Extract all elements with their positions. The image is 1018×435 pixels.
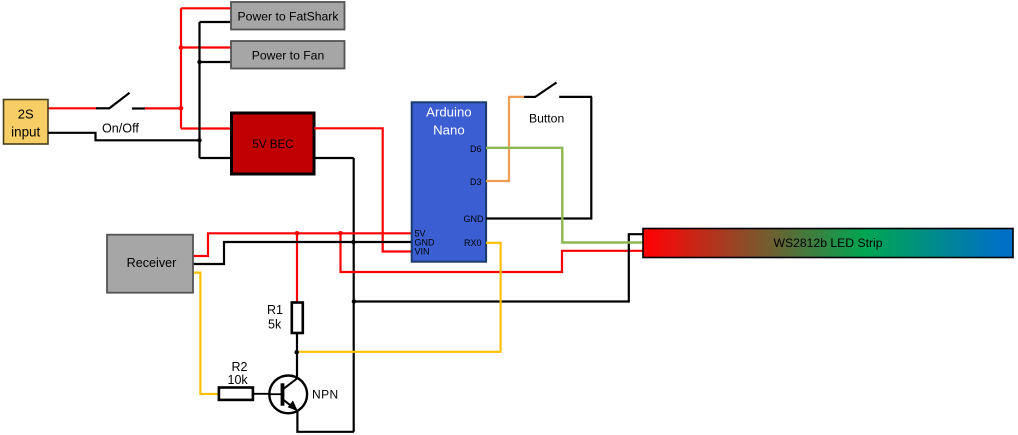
wire red: switch to riser junction bbox=[145, 107, 181, 109]
junction: black node R1/RX0/base divider bbox=[295, 350, 299, 354]
svg-text:Power to FatShark: Power to FatShark bbox=[238, 10, 340, 24]
svg-text:D3: D3 bbox=[470, 177, 482, 187]
wire black: BEC ground out to main ground trunk bbox=[314, 157, 354, 159]
junction: red node 5V rail to LED strip bbox=[338, 231, 343, 236]
resistor R1 body bbox=[292, 303, 303, 334]
wire red: 5V rail to WS2812b LED strip +5V bbox=[341, 233, 644, 272]
svg-text:Receiver: Receiver bbox=[127, 256, 177, 270]
svg-text:RX0: RX0 bbox=[464, 238, 482, 248]
wire black: receiver ground to Arduino GND bbox=[193, 242, 412, 264]
wire black: R1 bottom to transistor collector bbox=[296, 333, 298, 379]
wire black: main ground trunk vertical x=353.7 bbox=[353, 158, 355, 432]
transistor Q1: NPN bbox=[269, 376, 307, 414]
junction: black node ground trunk to LED strip bbox=[352, 299, 356, 303]
svg-text:Arduino: Arduino bbox=[426, 105, 471, 120]
wire yellow: receiver signal to R2 bbox=[193, 273, 220, 394]
wire red: vertical riser x=181 bbox=[180, 8, 182, 128]
wire red: riser to 5V BEC input bbox=[181, 127, 231, 129]
wire red: 2S input to on/off switch bbox=[48, 107, 97, 109]
wire black: 2S input negative to ground rail bbox=[48, 133, 200, 141]
wire green: Arduino D6 to WS2812b data in bbox=[486, 148, 643, 243]
junction: red node at switch rail bbox=[179, 106, 184, 111]
junction: black node to Fan branch bbox=[197, 60, 201, 64]
svg-text:5V BEC: 5V BEC bbox=[252, 138, 293, 151]
junction: red node to Fan branch bbox=[179, 45, 184, 50]
svg-text:2S: 2S bbox=[18, 107, 34, 122]
svg-text:R1: R1 bbox=[267, 303, 283, 317]
svg-text:R2: R2 bbox=[232, 360, 248, 374]
wire orange: Arduino D3 to button bbox=[486, 97, 524, 181]
junction: black node at 2S negative rail bbox=[197, 138, 201, 142]
wire black: button to Arduino GND bbox=[486, 97, 591, 219]
switch SW1 On/Off (open blade) bbox=[96, 93, 146, 109]
LED strip: WS2812b bbox=[643, 229, 1013, 258]
svg-text:VIN: VIN bbox=[415, 247, 430, 257]
wire black: rail to Power to FatShark bbox=[200, 21, 233, 23]
junction: black node ground trunk x GND wire bbox=[351, 240, 355, 244]
svg-text:WS2812b LED Strip: WS2812b LED Strip bbox=[773, 236, 882, 250]
svg-text:10k: 10k bbox=[228, 373, 249, 387]
svg-text:Button: Button bbox=[529, 111, 564, 125]
wire red: receiver supply to Arduino 5V rail bbox=[193, 233, 412, 256]
svg-text:GND: GND bbox=[464, 214, 485, 224]
svg-text:input: input bbox=[11, 125, 40, 140]
wire red: BEC output to Arduino VIN bbox=[314, 128, 412, 251]
wire red: riser to Power to FatShark bbox=[181, 7, 232, 9]
box: Receiver bbox=[107, 235, 193, 293]
svg-text:On/Off: On/Off bbox=[102, 122, 139, 136]
switch SW2: button (open blade) bbox=[524, 83, 592, 97]
svg-text:NPN: NPN bbox=[312, 387, 339, 401]
box: Power to FatShark bbox=[231, 2, 345, 30]
wire black: R2 to transistor base bbox=[253, 393, 270, 395]
junction: red node 5V rail to R1 bbox=[295, 231, 300, 236]
wire black: rail to 5V BEC input bbox=[200, 157, 232, 159]
svg-text:Power to Fan: Power to Fan bbox=[252, 49, 324, 63]
battery B1: 2S input box bbox=[4, 100, 49, 145]
wire black: rail to Power to Fan bbox=[200, 61, 233, 63]
regulator: 5V BEC box bbox=[232, 113, 315, 174]
box: Power to Fan bbox=[231, 41, 345, 69]
wire red: 5V rail down to R1 top bbox=[296, 233, 298, 303]
wire yellow: Arduino RX0 to R1/base node bbox=[297, 243, 501, 352]
wire black: emitter down to ground trunk bbox=[297, 411, 354, 432]
svg-text:D6: D6 bbox=[470, 144, 482, 154]
wire black: ground trunk to WS2812b LED strip GND bbox=[354, 234, 643, 301]
resistor R2 body bbox=[219, 388, 253, 400]
microcontroller U1: Arduino Nano bbox=[412, 102, 486, 261]
svg-text:Nano: Nano bbox=[433, 123, 465, 138]
wire black: vertical ground rail x=199.5 bbox=[198, 22, 200, 158]
wire red: riser to Power to Fan bbox=[181, 46, 232, 48]
svg-text:5k: 5k bbox=[268, 318, 282, 332]
